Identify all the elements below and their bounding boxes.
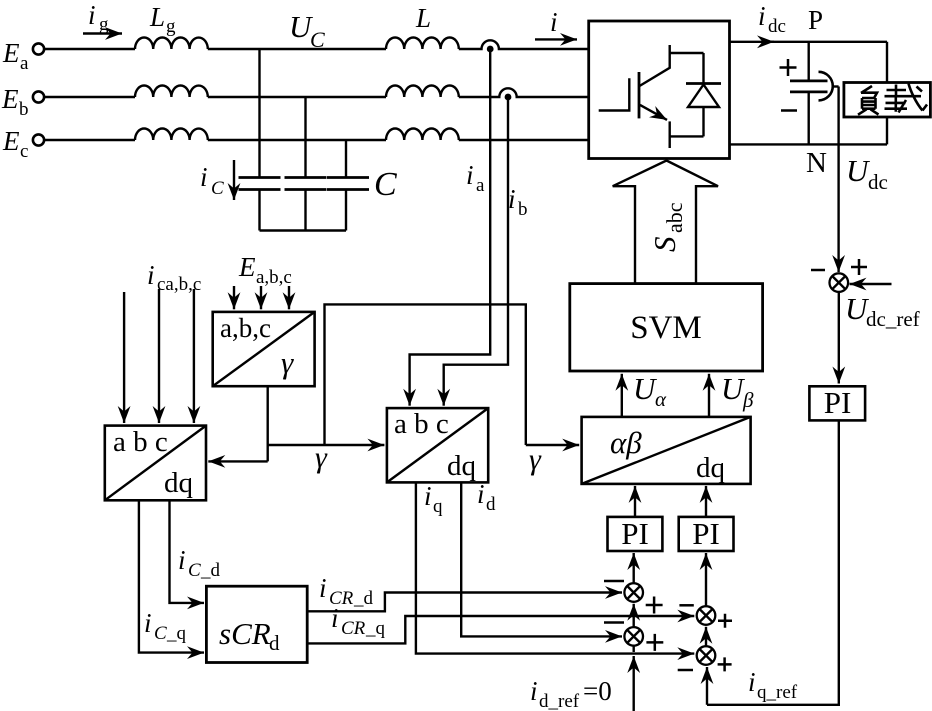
svg-text:c: c <box>20 141 28 162</box>
wire iq_ref up into R2 <box>706 667 708 705</box>
alphabeta-dq block <box>582 417 751 484</box>
svg-text:_d: _d <box>200 560 221 581</box>
summing junction R2 <box>697 646 716 665</box>
wire R1 to PI2 <box>705 553 707 606</box>
DC capacitor Cdc plates <box>790 81 828 92</box>
inductor Lg phase a <box>135 38 208 50</box>
minus sign at Udc junction <box>811 269 825 272</box>
svg-text:C: C <box>154 623 167 644</box>
source Eb terminal <box>33 91 44 102</box>
svg-text:γ: γ <box>315 441 328 474</box>
wire DC capacitor branch lower <box>808 92 810 144</box>
wire R2 to R1 <box>705 627 707 646</box>
svg-text:dq: dq <box>696 452 725 484</box>
svg-text:d_ref: d_ref <box>539 691 580 711</box>
wire phase c: Lg to L <box>208 139 386 141</box>
summing junction L2 <box>624 627 643 646</box>
source Ec terminal <box>33 134 44 145</box>
wire DC capacitor branch upper <box>808 42 810 81</box>
wire sCRd output iCRq to R1 <box>307 616 670 643</box>
svg-text:dq: dq <box>164 467 193 499</box>
abc-dq block 2 <box>387 408 488 482</box>
svg-text:dc: dc <box>868 170 888 194</box>
wire phase b: terminal to Lg <box>45 96 136 98</box>
wire gamma to block2 <box>268 444 385 446</box>
current arrow i <box>535 38 577 40</box>
svg-text:N: N <box>806 147 827 179</box>
svg-text:=0: =0 <box>583 676 612 706</box>
sensor dot phase a <box>487 46 494 53</box>
wire block2 output id to L2 <box>461 482 600 636</box>
wire DC right branch upper <box>886 42 888 83</box>
svg-text:dq: dq <box>447 450 476 482</box>
wire gamma to alphabeta-dq block <box>526 444 579 446</box>
wire phase a: L to converter with sensor hop <box>459 40 589 49</box>
wire DC positive rail with idc arrow <box>730 41 775 43</box>
svg-text:a: a <box>20 53 29 74</box>
svg-text:i: i <box>144 608 152 638</box>
svg-text:i: i <box>466 160 474 190</box>
svg-text:L: L <box>149 2 165 32</box>
wire ib from sensor to block2 <box>444 97 508 400</box>
svg-text:i: i <box>508 184 516 214</box>
svg-text:b: b <box>518 199 528 220</box>
IGBT emitter bottom tee <box>670 135 704 137</box>
IGBT collector top tee <box>670 52 704 54</box>
inductor L phase b <box>386 85 459 97</box>
svg-text:dc_ref: dc_ref <box>866 307 920 331</box>
wire L1 to PI1 <box>633 553 635 583</box>
plus sign at L2 <box>646 634 663 651</box>
svg-text:PI: PI <box>824 385 852 420</box>
wire ica input a <box>123 292 125 423</box>
PI2 box <box>679 517 734 551</box>
wire capacitor branch b <box>304 97 306 177</box>
svg-text:q_ref: q_ref <box>757 682 798 703</box>
wire phase c: terminal to Lg <box>45 139 136 141</box>
svg-text:E: E <box>1 84 19 114</box>
svg-text:a b c: a b c <box>394 408 449 440</box>
wire below capacitor c <box>345 190 347 231</box>
svg-text:E: E <box>2 126 20 156</box>
plus sign at R2 <box>718 657 732 671</box>
svg-text:sCR: sCR <box>219 616 271 651</box>
svg-text:d: d <box>486 494 496 515</box>
svg-text:C: C <box>188 560 201 581</box>
diode D1 triangle <box>688 85 719 108</box>
svg-text:i: i <box>758 1 766 31</box>
wire ica input c <box>193 289 195 423</box>
PI3 box <box>809 386 865 420</box>
minus sign at R1 <box>679 604 693 607</box>
wire id_ref input <box>633 656 635 711</box>
wire ia from sensor to block2 <box>410 49 491 400</box>
wire capacitor branch a <box>258 49 260 177</box>
diode D1 branch top <box>702 53 704 84</box>
svg-text:i: i <box>748 667 756 697</box>
wire PI1 to alphabeta-dq <box>634 486 636 517</box>
svg-text:dc: dc <box>768 16 786 37</box>
svg-text:CR: CR <box>341 618 366 639</box>
wire PLL gamma output down <box>267 386 269 461</box>
IGBT emitter with arrow <box>640 105 667 120</box>
svg-text:E: E <box>238 252 256 282</box>
wire gamma to block1 <box>208 460 267 462</box>
converter box U1 <box>589 21 730 159</box>
svg-text:i: i <box>178 545 186 575</box>
svg-text:αβ: αβ <box>610 425 642 460</box>
svg-text:i: i <box>200 162 208 192</box>
wire ica input b <box>158 289 160 423</box>
capacitor C phase b <box>285 178 327 190</box>
minus sign at L2 <box>604 621 624 624</box>
svg-text:abc: abc <box>662 202 687 233</box>
svg-text:a b c: a b c <box>113 426 168 458</box>
PLL block abc-gamma <box>213 312 315 386</box>
svg-text:i: i <box>88 0 96 30</box>
Sabc block arrow <box>613 161 718 284</box>
svg-text:L: L <box>415 3 431 33</box>
wire capacitor common rail <box>260 229 347 231</box>
minus sign at R2 <box>678 669 693 672</box>
minus sign DC capacitor <box>781 109 797 112</box>
wire phase b: L to converter with sensor hop <box>459 88 589 97</box>
svg-text:a,b,c: a,b,c <box>220 313 271 343</box>
wire phase a: terminal to Lg <box>45 48 136 50</box>
wire capacitor branch c <box>345 140 347 177</box>
IGBT gate lead <box>599 78 630 112</box>
wire Udc tap <box>833 85 839 87</box>
svg-text:g: g <box>166 16 176 37</box>
summing junction L1 <box>624 583 643 602</box>
svg-text:i: i <box>424 481 432 511</box>
svg-text:_d: _d <box>353 588 374 609</box>
inductor L phase a <box>386 37 459 49</box>
wire Eabc input c <box>288 286 290 309</box>
wire phase a: Lg to L <box>208 48 386 50</box>
svg-text:C: C <box>374 166 397 203</box>
capacitor C phase a <box>239 178 281 190</box>
wire below capacitor b <box>304 190 306 231</box>
source Ea terminal <box>33 43 44 54</box>
svg-text:PI: PI <box>692 516 720 551</box>
plus sign at Udc junction <box>851 259 867 275</box>
SVM box <box>570 284 763 371</box>
svg-text:_q: _q <box>365 618 386 639</box>
diode D1 cathode bar <box>686 82 721 85</box>
PI1 box <box>608 517 663 551</box>
svg-text:d: d <box>269 631 280 655</box>
svg-text:_q: _q <box>166 623 187 644</box>
wire PI2 to alphabeta-dq <box>705 486 707 517</box>
svg-text:a,b,c: a,b,c <box>256 267 292 288</box>
IGBT body bar <box>638 72 641 118</box>
svg-text:q: q <box>433 496 443 517</box>
wire PI3 down to iq_ref corner <box>707 420 839 704</box>
svg-text:E: E <box>2 38 20 68</box>
wire junction to PI3 <box>838 292 840 384</box>
sensor dot phase b <box>505 94 512 101</box>
svg-text:SVM: SVM <box>630 310 702 346</box>
wire sCRd output iCRd to L1 <box>307 593 600 612</box>
svg-text:ca,b,c: ca,b,c <box>157 274 201 295</box>
capacitor C phase c <box>327 178 369 190</box>
abc-dq block 1 <box>105 426 206 501</box>
svg-text:i: i <box>550 7 558 37</box>
wire below capacitor a <box>258 190 260 231</box>
plus sign at R1 <box>718 614 732 628</box>
label Sabc rotated <box>647 202 687 252</box>
wire block1 output iCd <box>170 500 187 603</box>
svg-text:α: α <box>655 387 667 411</box>
wire Udc_ref input <box>850 283 892 285</box>
wire L2 to L1 <box>633 604 635 627</box>
minus sign at L1 <box>604 580 624 583</box>
wire gamma branch up <box>325 304 526 445</box>
current arrow iC <box>233 160 235 200</box>
load box <box>844 83 931 118</box>
load text 负载 glyph strokes <box>858 84 927 115</box>
inductor L phase c <box>386 129 459 141</box>
svg-text:g: g <box>99 14 109 35</box>
sCRd box <box>206 586 307 662</box>
IGBT emitter lead <box>669 121 671 148</box>
current arrow ig <box>83 32 122 34</box>
svg-text:i: i <box>530 676 538 706</box>
svg-text:i: i <box>319 573 327 603</box>
inductor Lg phase b <box>135 86 208 97</box>
wire block2 output iq to R2 <box>416 482 670 653</box>
diode D1 branch bottom <box>702 107 704 136</box>
svg-text:PI: PI <box>621 516 649 551</box>
inductor Lg phase c <box>135 129 208 141</box>
svg-text:i: i <box>147 260 155 290</box>
svg-text:C: C <box>310 27 325 52</box>
svg-text:i: i <box>477 479 485 509</box>
wire DC negative rail <box>730 143 888 145</box>
svg-text:C: C <box>211 178 224 199</box>
svg-text:S: S <box>647 237 682 253</box>
svg-text:β: β <box>742 388 754 412</box>
svg-text:γ: γ <box>281 345 294 380</box>
svg-text:P: P <box>808 5 823 35</box>
voltage sensor arc on DC link <box>819 72 833 101</box>
wire Ualpha arrow into SVM <box>621 374 623 417</box>
plus sign DC capacitor <box>780 59 797 76</box>
wire DC right branch lower <box>886 117 888 144</box>
svg-text:b: b <box>19 99 29 120</box>
plus sign at L1 <box>646 597 663 614</box>
wire phase c: L to converter <box>459 139 589 141</box>
wire block1 output iCq <box>139 500 186 652</box>
wire phase b: Lg to L <box>208 96 386 98</box>
svg-text:i: i <box>331 603 339 633</box>
wire Eabc input a <box>233 286 235 309</box>
wire Ubeta arrow into SVM <box>708 374 710 417</box>
wire Eabc input b <box>260 286 262 309</box>
summing junction R1 <box>697 606 716 625</box>
svg-text:γ: γ <box>529 443 542 476</box>
summing junction right (Udc) <box>830 87 849 292</box>
IGBT collector <box>640 45 670 86</box>
svg-text:a: a <box>476 175 485 196</box>
